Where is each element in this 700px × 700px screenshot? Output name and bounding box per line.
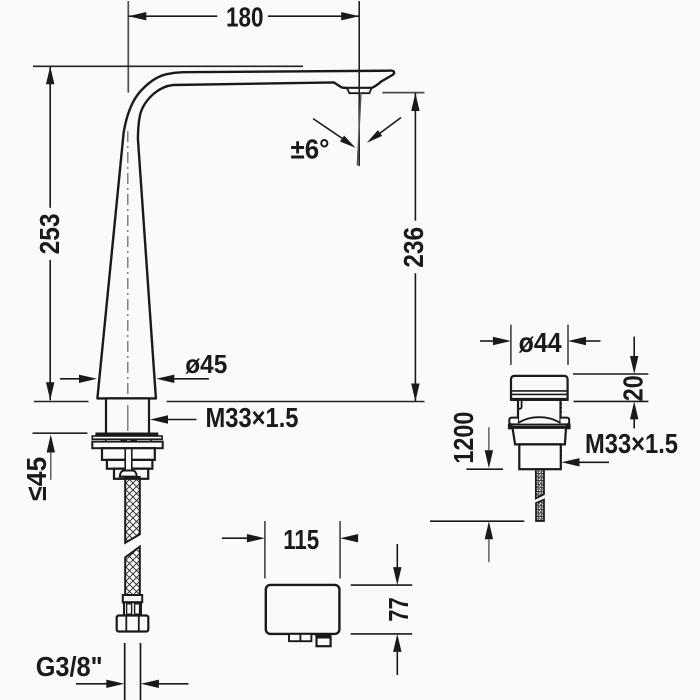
svg-text:253: 253 bbox=[34, 213, 65, 254]
svg-text:G3/8": G3/8" bbox=[36, 651, 103, 682]
svg-text:20: 20 bbox=[618, 375, 649, 401]
svg-text:ø45: ø45 bbox=[185, 349, 227, 379]
svg-text:77: 77 bbox=[383, 597, 414, 622]
svg-text:236: 236 bbox=[398, 227, 429, 268]
svg-text:≤45: ≤45 bbox=[21, 457, 52, 501]
svg-text:M33×1.5: M33×1.5 bbox=[206, 402, 299, 433]
svg-text:±6°: ±6° bbox=[291, 133, 330, 164]
svg-text:1200: 1200 bbox=[448, 412, 479, 464]
svg-text:M33×1.5: M33×1.5 bbox=[585, 428, 678, 459]
svg-text:ø44: ø44 bbox=[519, 327, 562, 358]
svg-text:180: 180 bbox=[226, 2, 264, 33]
svg-text:115: 115 bbox=[283, 524, 319, 555]
